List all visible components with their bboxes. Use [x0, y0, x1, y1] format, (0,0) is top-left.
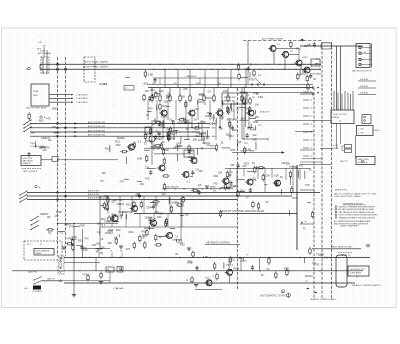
svg-text:22K: 22K — [82, 246, 87, 250]
svg-text:R12: R12 — [174, 83, 177, 85]
svg-text:10K: 10K — [240, 117, 245, 121]
svg-text:2N404: 2N404 — [205, 96, 213, 100]
svg-text:2N404: 2N404 — [116, 202, 124, 206]
svg-text:2N404: 2N404 — [145, 139, 153, 143]
svg-text:GYRO CONTROL RELAY SHOWN DE-EN: GYRO CONTROL RELAY SHOWN DE-ENERG — [339, 214, 379, 217]
svg-text:GYRO: GYRO — [302, 57, 308, 59]
svg-text:1 TAB GAS LINE: 1 TAB GAS LINE — [165, 185, 179, 188]
svg-text:22K: 22K — [145, 165, 150, 169]
svg-text:2N1304: 2N1304 — [226, 265, 234, 267]
svg-text:CONT 5 ELECTRONT LOADER: CONT 5 ELECTRONT LOADER — [334, 195, 361, 198]
svg-text:4700: 4700 — [56, 210, 62, 214]
svg-text:22K: 22K — [225, 132, 230, 136]
svg-text:K2: K2 — [339, 121, 341, 123]
svg-text:2N404: 2N404 — [145, 215, 153, 219]
svg-text:Q6: Q6 — [100, 251, 104, 255]
svg-text:2W: 2W — [240, 189, 244, 193]
svg-text:5 TTY: 5 TTY — [302, 222, 308, 224]
svg-text:470: 470 — [145, 177, 150, 181]
svg-text:Q6: Q6 — [319, 253, 323, 257]
svg-text:R23: R23 — [244, 162, 249, 166]
svg-text:3: 3 — [335, 212, 336, 214]
svg-text:22K: 22K — [211, 116, 216, 120]
svg-text:100: 100 — [92, 243, 97, 247]
svg-text:CR4: CR4 — [146, 206, 152, 210]
svg-text:J1 P1: J1 P1 — [40, 51, 46, 53]
svg-text:C7: C7 — [110, 251, 112, 253]
svg-text:2W: 2W — [255, 102, 259, 106]
svg-text:R12: R12 — [105, 147, 110, 151]
svg-text:2N404: 2N404 — [227, 185, 235, 189]
svg-text:4700: 4700 — [163, 148, 169, 152]
svg-text:GE AUTO F: GE AUTO F — [260, 111, 270, 114]
svg-text:4700: 4700 — [249, 77, 255, 81]
svg-text:C2: C2 — [125, 88, 127, 90]
svg-text:1 TAB TENTH: 1 TAB TENTH — [185, 75, 197, 78]
svg-text:R23: R23 — [153, 203, 158, 207]
svg-text:Q6: Q6 — [198, 183, 202, 187]
svg-text:4: 4 — [335, 214, 336, 216]
svg-text:470: 470 — [227, 117, 232, 121]
svg-text:R23: R23 — [180, 243, 185, 247]
svg-text:CRT GYRO PVT: CRT GYRO PVT — [350, 269, 366, 271]
svg-text:R12: R12 — [116, 228, 121, 232]
svg-text:R12: R12 — [150, 88, 155, 92]
svg-text:RELAY: RELAY — [333, 116, 340, 119]
svg-text:RELAY: RELAY — [36, 252, 43, 255]
svg-text:1K: 1K — [186, 127, 189, 131]
svg-text:UNIT: UNIT — [33, 95, 39, 97]
svg-text:LATO TTY: LATO TTY — [340, 160, 349, 163]
svg-text:GE PILOT SHUTOFF GROUND VALVE: GE PILOT SHUTOFF GROUND VALVE — [220, 210, 264, 213]
svg-text:AUTO DN (N) SIG: AUTO DN (N) SIG — [88, 121, 105, 124]
svg-text:C4: C4 — [266, 267, 270, 271]
svg-text:CR4: CR4 — [209, 121, 215, 125]
svg-text:CR4: CR4 — [258, 95, 264, 99]
svg-text:4700: 4700 — [126, 210, 132, 214]
svg-text:0.1: 0.1 — [186, 180, 190, 184]
svg-text:22K: 22K — [183, 87, 188, 91]
svg-text:470: 470 — [275, 180, 280, 184]
svg-text:1K: 1K — [265, 200, 268, 204]
svg-text:GE RADIO CONTROL: GE RADIO CONTROL — [206, 242, 231, 245]
svg-text:1K: 1K — [220, 140, 223, 144]
svg-text:1 LAG TACH: 1 LAG TACH — [76, 97, 88, 100]
svg-text:K7: K7 — [40, 244, 42, 246]
svg-text:2W: 2W — [175, 201, 179, 205]
svg-text:CR4: CR4 — [213, 174, 219, 178]
svg-text:470: 470 — [84, 237, 89, 241]
svg-text:R12: R12 — [109, 228, 114, 232]
svg-text:R23: R23 — [144, 226, 149, 230]
svg-text:Q6: Q6 — [238, 140, 242, 144]
svg-text:TRANSISTORS ARE TYPE 2N404 UNL: TRANSISTORS ARE TYPE 2N404 UNLESS — [339, 216, 376, 219]
svg-text:R23: R23 — [39, 119, 44, 123]
svg-text:0.1: 0.1 — [102, 223, 106, 227]
svg-text:470: 470 — [42, 148, 47, 152]
svg-text:CR4: CR4 — [196, 131, 202, 135]
svg-text:RELAY PHASE LOADER: RELAY PHASE LOADER — [83, 66, 108, 69]
svg-text:R23: R23 — [112, 213, 117, 217]
svg-text:22K: 22K — [163, 99, 168, 103]
svg-text:75: 75 — [367, 246, 369, 248]
svg-text:Q6: Q6 — [111, 200, 115, 204]
svg-text:0.1: 0.1 — [244, 141, 248, 145]
svg-text:RADIO RELAY (TTY) AT: RADIO RELAY (TTY) AT — [331, 245, 352, 248]
svg-text:1K: 1K — [313, 77, 316, 81]
svg-text:A2: A2 — [267, 138, 269, 141]
svg-text:4 BLK A1: 4 BLK A1 — [360, 85, 368, 88]
svg-text:C4: C4 — [152, 216, 156, 220]
svg-text:2N404: 2N404 — [305, 274, 313, 278]
svg-text:PWR: PWR — [33, 91, 39, 93]
svg-text:R12: R12 — [230, 258, 235, 262]
svg-text:ALTO PHASE LOADER: ALTO PHASE LOADER — [262, 38, 284, 41]
svg-text:470: 470 — [69, 225, 74, 229]
svg-text:6.8K: 6.8K — [137, 157, 143, 161]
svg-text:2W: 2W — [162, 192, 166, 196]
svg-text:AUTO PHASE LOADER: AUTO PHASE LOADER — [84, 61, 108, 64]
svg-text:1N91: 1N91 — [161, 114, 168, 118]
svg-text:1K: 1K — [213, 188, 216, 192]
svg-text:R23: R23 — [162, 104, 167, 108]
svg-text:1K: 1K — [162, 140, 165, 144]
svg-text:22K: 22K — [31, 131, 36, 135]
svg-text:LATO FOTORT MODL: LATO FOTORT MODL — [26, 107, 48, 110]
svg-text:R12: R12 — [245, 107, 250, 111]
svg-text:1 TAB GAS: 1 TAB GAS — [113, 287, 124, 290]
svg-text:6.8K: 6.8K — [148, 73, 154, 77]
svg-text:470: 470 — [54, 214, 59, 218]
svg-text:R12: R12 — [170, 132, 175, 136]
svg-text:5: 5 — [335, 217, 336, 219]
svg-text:100: 100 — [185, 213, 190, 217]
svg-text:PHASE DET: PHASE DET — [224, 96, 237, 99]
svg-text:R23: R23 — [158, 211, 163, 215]
svg-text:R4: R4 — [120, 251, 122, 253]
svg-text:ALL RES VALUES SHOWN ARE IN OH: ALL RES VALUES SHOWN ARE IN OHMS — [339, 208, 375, 211]
svg-text:LATO CONTROL: LATO CONTROL — [23, 170, 38, 173]
svg-text:0.1: 0.1 — [138, 139, 142, 143]
svg-text:10K: 10K — [205, 114, 210, 118]
svg-text:GAS PRM: GAS PRM — [28, 270, 37, 273]
svg-text:6.8K: 6.8K — [203, 255, 209, 259]
svg-text:C4: C4 — [208, 89, 212, 93]
svg-text:GE AUTO CONTROL ASSY: GE AUTO CONTROL ASSY — [310, 298, 336, 301]
svg-text:0.1: 0.1 — [104, 82, 108, 86]
svg-text:AUTOMATIC GYRO: AUTOMATIC GYRO — [260, 294, 288, 298]
svg-text:AUTO DN (N) SIG: AUTO DN (N) SIG — [88, 125, 105, 128]
svg-text:GYRO AMPL: GYRO AMPL — [310, 72, 323, 75]
svg-text:TRKR: TRKR — [82, 274, 88, 276]
svg-text:4700: 4700 — [79, 224, 85, 228]
svg-text:22K: 22K — [223, 89, 228, 93]
svg-text:1N91: 1N91 — [232, 118, 239, 122]
svg-text:1K: 1K — [100, 237, 103, 241]
svg-text:Q6: Q6 — [167, 137, 171, 141]
svg-text:4700: 4700 — [200, 120, 206, 124]
svg-text:1N91: 1N91 — [51, 106, 58, 110]
svg-text:10K: 10K — [194, 107, 199, 111]
svg-text:1K: 1K — [261, 273, 264, 277]
svg-text:1: 1 — [335, 206, 336, 208]
svg-text:1 A7: 1 A7 — [38, 41, 42, 44]
svg-text:CAP VALUES IN MICROFARADS UNLE: CAP VALUES IN MICROFARADS UNLESS — [339, 211, 375, 214]
svg-text:100: 100 — [101, 171, 106, 175]
svg-text:( 1 ) A: ( 1 ) A — [359, 127, 365, 130]
svg-text:GE: GE — [24, 288, 28, 290]
svg-text:A HOLD SIG: A HOLD SIG — [88, 190, 100, 193]
svg-text:100: 100 — [254, 115, 259, 119]
svg-text:Q6: Q6 — [99, 195, 103, 199]
svg-text:1 ASSTD GEARSHIFT: 1 ASSTD GEARSHIFT — [340, 225, 360, 228]
svg-text:4 BLK A2: 4 BLK A2 — [360, 92, 368, 95]
svg-text:GAS TK: GAS TK — [47, 278, 55, 281]
svg-text:2: 2 — [335, 209, 336, 211]
svg-text:2W: 2W — [199, 169, 203, 173]
svg-text:2W: 2W — [302, 70, 306, 74]
svg-text:1 LAG TACH: 1 LAG TACH — [76, 101, 88, 104]
svg-text:470: 470 — [148, 107, 153, 111]
svg-text:CONT ASSY: CONT ASSY — [350, 272, 362, 275]
svg-text:1K: 1K — [146, 113, 149, 117]
svg-text:LATO ELECTRONT GY: LATO ELECTRONT GY — [352, 69, 373, 72]
svg-text:0.1: 0.1 — [324, 256, 328, 260]
svg-text:6.8K: 6.8K — [252, 137, 258, 141]
svg-text:UNLESS OTHERWISE SPECIFIED RES: UNLESS OTHERWISE SPECIFIED RESIST — [339, 207, 376, 209]
svg-text:R23: R23 — [78, 239, 83, 243]
svg-text:R23: R23 — [199, 93, 204, 97]
svg-text:0.1: 0.1 — [312, 260, 316, 264]
svg-text:2N404: 2N404 — [202, 141, 210, 145]
svg-text:4 BLK A0: 4 BLK A0 — [360, 78, 368, 81]
svg-text:10K: 10K — [192, 137, 197, 141]
svg-text:CR4: CR4 — [282, 161, 288, 165]
svg-text:22K: 22K — [100, 245, 105, 249]
svg-text:SPARE: SPARE — [117, 137, 125, 140]
svg-text:1K: 1K — [280, 175, 283, 179]
svg-text:AUTO DN (N) SIG: AUTO DN (N) SIG — [88, 134, 105, 137]
svg-text:470: 470 — [305, 183, 310, 187]
svg-text:1K: 1K — [252, 161, 255, 165]
svg-text:470: 470 — [126, 247, 131, 251]
svg-text:Q6: Q6 — [171, 119, 175, 123]
svg-text:1N91: 1N91 — [233, 267, 240, 271]
svg-text:( 2 ) B: ( 2 ) B — [359, 132, 365, 134]
svg-text:1N91: 1N91 — [283, 267, 290, 271]
svg-text:2N404: 2N404 — [177, 121, 185, 125]
svg-text:P2: P2 — [358, 46, 360, 48]
svg-text:R12: R12 — [126, 202, 131, 206]
svg-text:MODULE: MODULE — [224, 101, 234, 103]
svg-text:10K: 10K — [157, 215, 162, 219]
svg-text:10K: 10K — [232, 128, 237, 132]
svg-text:C4: C4 — [196, 168, 200, 172]
svg-text:Q6: Q6 — [48, 138, 52, 142]
svg-text:22K: 22K — [135, 193, 140, 197]
svg-text:R12: R12 — [159, 89, 164, 93]
svg-text:0.1: 0.1 — [56, 126, 60, 130]
svg-text:R8: R8 — [186, 280, 188, 282]
svg-text:1 LAG TACH: 1 LAG TACH — [76, 93, 88, 96]
svg-text:2W: 2W — [266, 174, 270, 178]
svg-text:470: 470 — [213, 182, 218, 186]
svg-text:GYRO CUTOUT: GYRO CUTOUT — [333, 114, 348, 116]
svg-text:10K: 10K — [274, 173, 279, 177]
svg-text:470: 470 — [46, 117, 51, 121]
svg-text:470: 470 — [120, 179, 125, 183]
svg-text:100: 100 — [118, 214, 123, 218]
svg-text:CONTROL: CONTROL — [32, 291, 43, 293]
svg-text:AUTO DN (N) SIG: AUTO DN (N) SIG — [88, 129, 105, 132]
svg-text:CR4: CR4 — [176, 141, 182, 145]
svg-text:Q6: Q6 — [47, 215, 51, 219]
svg-text:GE TTY: GE TTY — [175, 146, 182, 148]
svg-text:C4: C4 — [253, 178, 257, 182]
svg-text:1K: 1K — [194, 118, 197, 122]
svg-text:100: 100 — [180, 94, 185, 98]
svg-text:R12: R12 — [104, 194, 109, 198]
svg-text:2N404: 2N404 — [240, 91, 248, 95]
svg-text:1N91: 1N91 — [250, 128, 257, 132]
svg-text:Q6: Q6 — [235, 102, 239, 106]
svg-text:100: 100 — [307, 43, 312, 47]
svg-text:2W: 2W — [140, 182, 144, 186]
svg-text:470: 470 — [299, 163, 304, 167]
svg-text:2W: 2W — [252, 97, 255, 99]
svg-text:2W: 2W — [166, 127, 170, 131]
svg-text:6.8K: 6.8K — [292, 165, 298, 169]
svg-text:STAND B: STAND B — [23, 162, 32, 165]
svg-text:CR4: CR4 — [181, 116, 187, 120]
svg-text:10K: 10K — [144, 89, 149, 93]
svg-text:Q6: Q6 — [129, 148, 133, 152]
svg-text:100: 100 — [220, 116, 225, 120]
svg-text:470: 470 — [143, 82, 148, 86]
svg-text:TO: TO — [305, 281, 308, 283]
svg-text:CR4: CR4 — [152, 83, 155, 85]
svg-text:J2: J2 — [364, 52, 366, 54]
svg-text:R12: R12 — [116, 143, 121, 147]
svg-text:TO AUX: TO AUX — [372, 129, 380, 132]
svg-text:(SEE NOTE 5): (SEE NOTE 5) — [335, 189, 348, 191]
svg-text:6.8K: 6.8K — [204, 137, 210, 141]
svg-text:22K: 22K — [108, 241, 113, 245]
svg-text:6.8K: 6.8K — [246, 147, 252, 151]
svg-text:CR4: CR4 — [128, 230, 134, 234]
svg-text:10K: 10K — [218, 170, 223, 174]
svg-text:R12: R12 — [188, 261, 193, 265]
svg-text:2N404: 2N404 — [118, 210, 126, 214]
svg-text:1K: 1K — [309, 167, 312, 171]
svg-text:0.1: 0.1 — [97, 230, 101, 234]
svg-text:GE AUTO CONTROL ASSY 2: GE AUTO CONTROL ASSY 2 — [352, 284, 382, 287]
svg-text:2W: 2W — [230, 163, 234, 167]
